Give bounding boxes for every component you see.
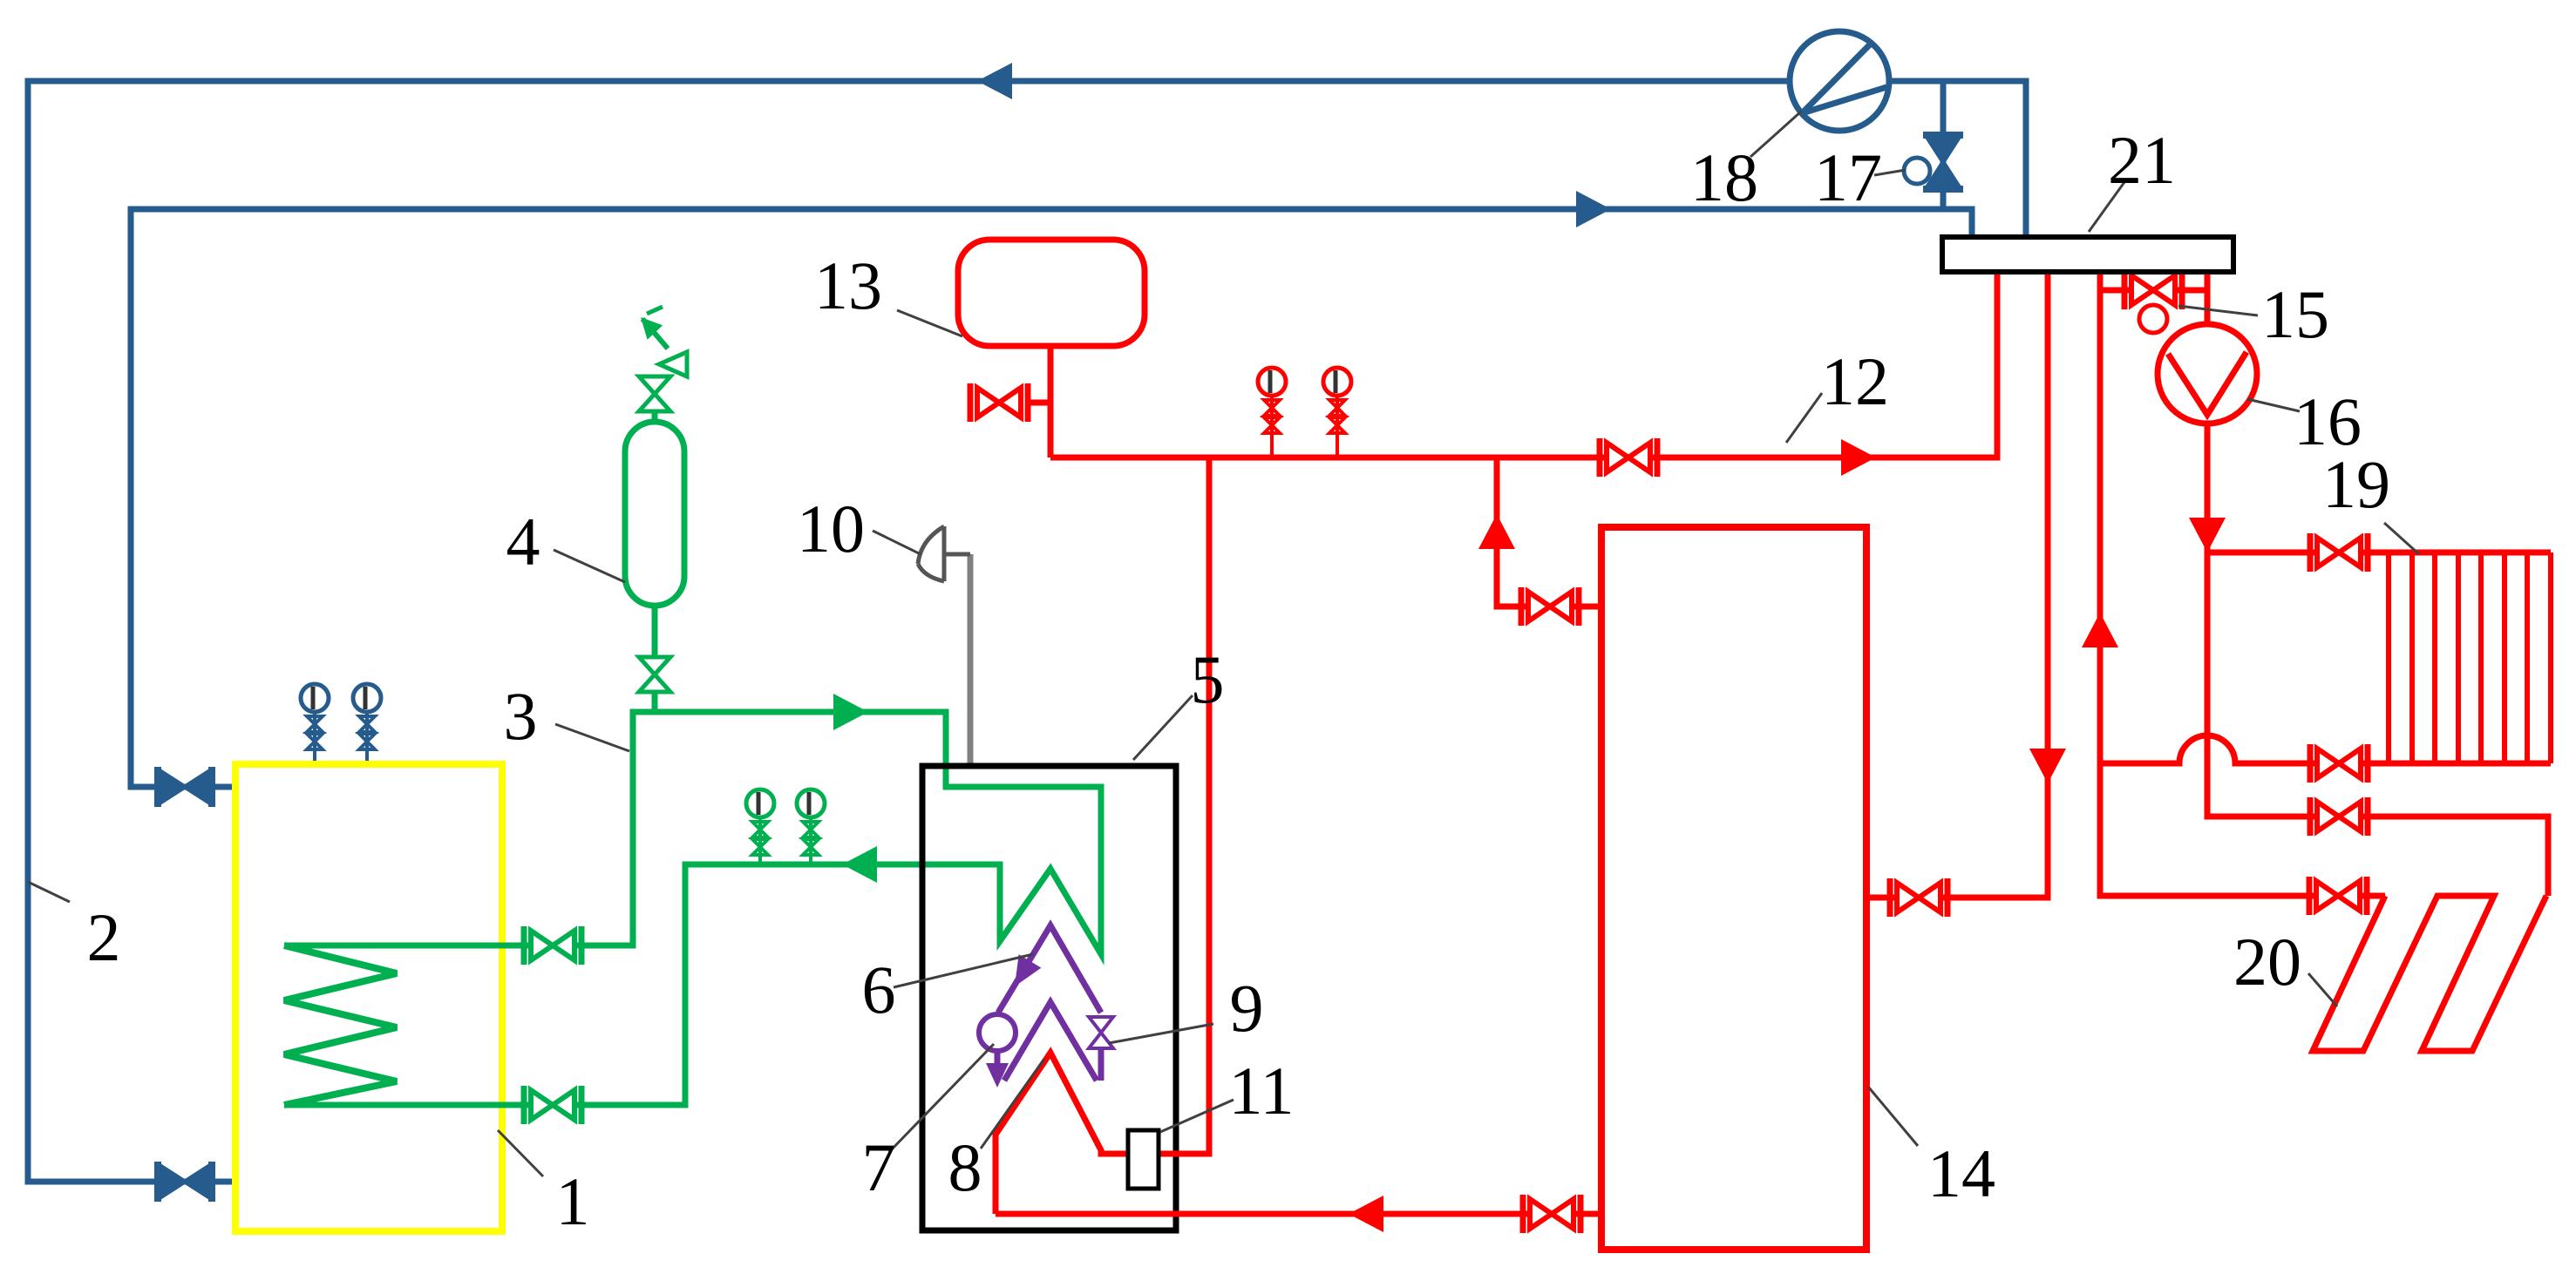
svg-text:7: 7: [862, 1129, 896, 1205]
svg-text:19: 19: [2322, 446, 2390, 522]
svg-text:15: 15: [2261, 276, 2329, 352]
svg-text:11: 11: [1228, 1053, 1294, 1128]
svg-text:21: 21: [2108, 122, 2176, 198]
svg-text:5: 5: [1191, 641, 1225, 717]
svg-text:8: 8: [948, 1129, 982, 1205]
svg-text:14: 14: [1927, 1135, 1995, 1211]
svg-text:10: 10: [797, 491, 865, 566]
svg-text:1: 1: [556, 1163, 590, 1239]
svg-text:17: 17: [1814, 139, 1882, 215]
svg-text:13: 13: [814, 247, 882, 323]
svg-text:20: 20: [2233, 924, 2301, 1000]
svg-text:3: 3: [504, 678, 538, 754]
svg-text:18: 18: [1690, 139, 1758, 215]
svg-text:9: 9: [1230, 970, 1264, 1046]
svg-text:12: 12: [1821, 343, 1889, 419]
svg-text:4: 4: [506, 504, 540, 579]
svg-text:2: 2: [87, 899, 121, 975]
svg-text:6: 6: [862, 952, 896, 1027]
